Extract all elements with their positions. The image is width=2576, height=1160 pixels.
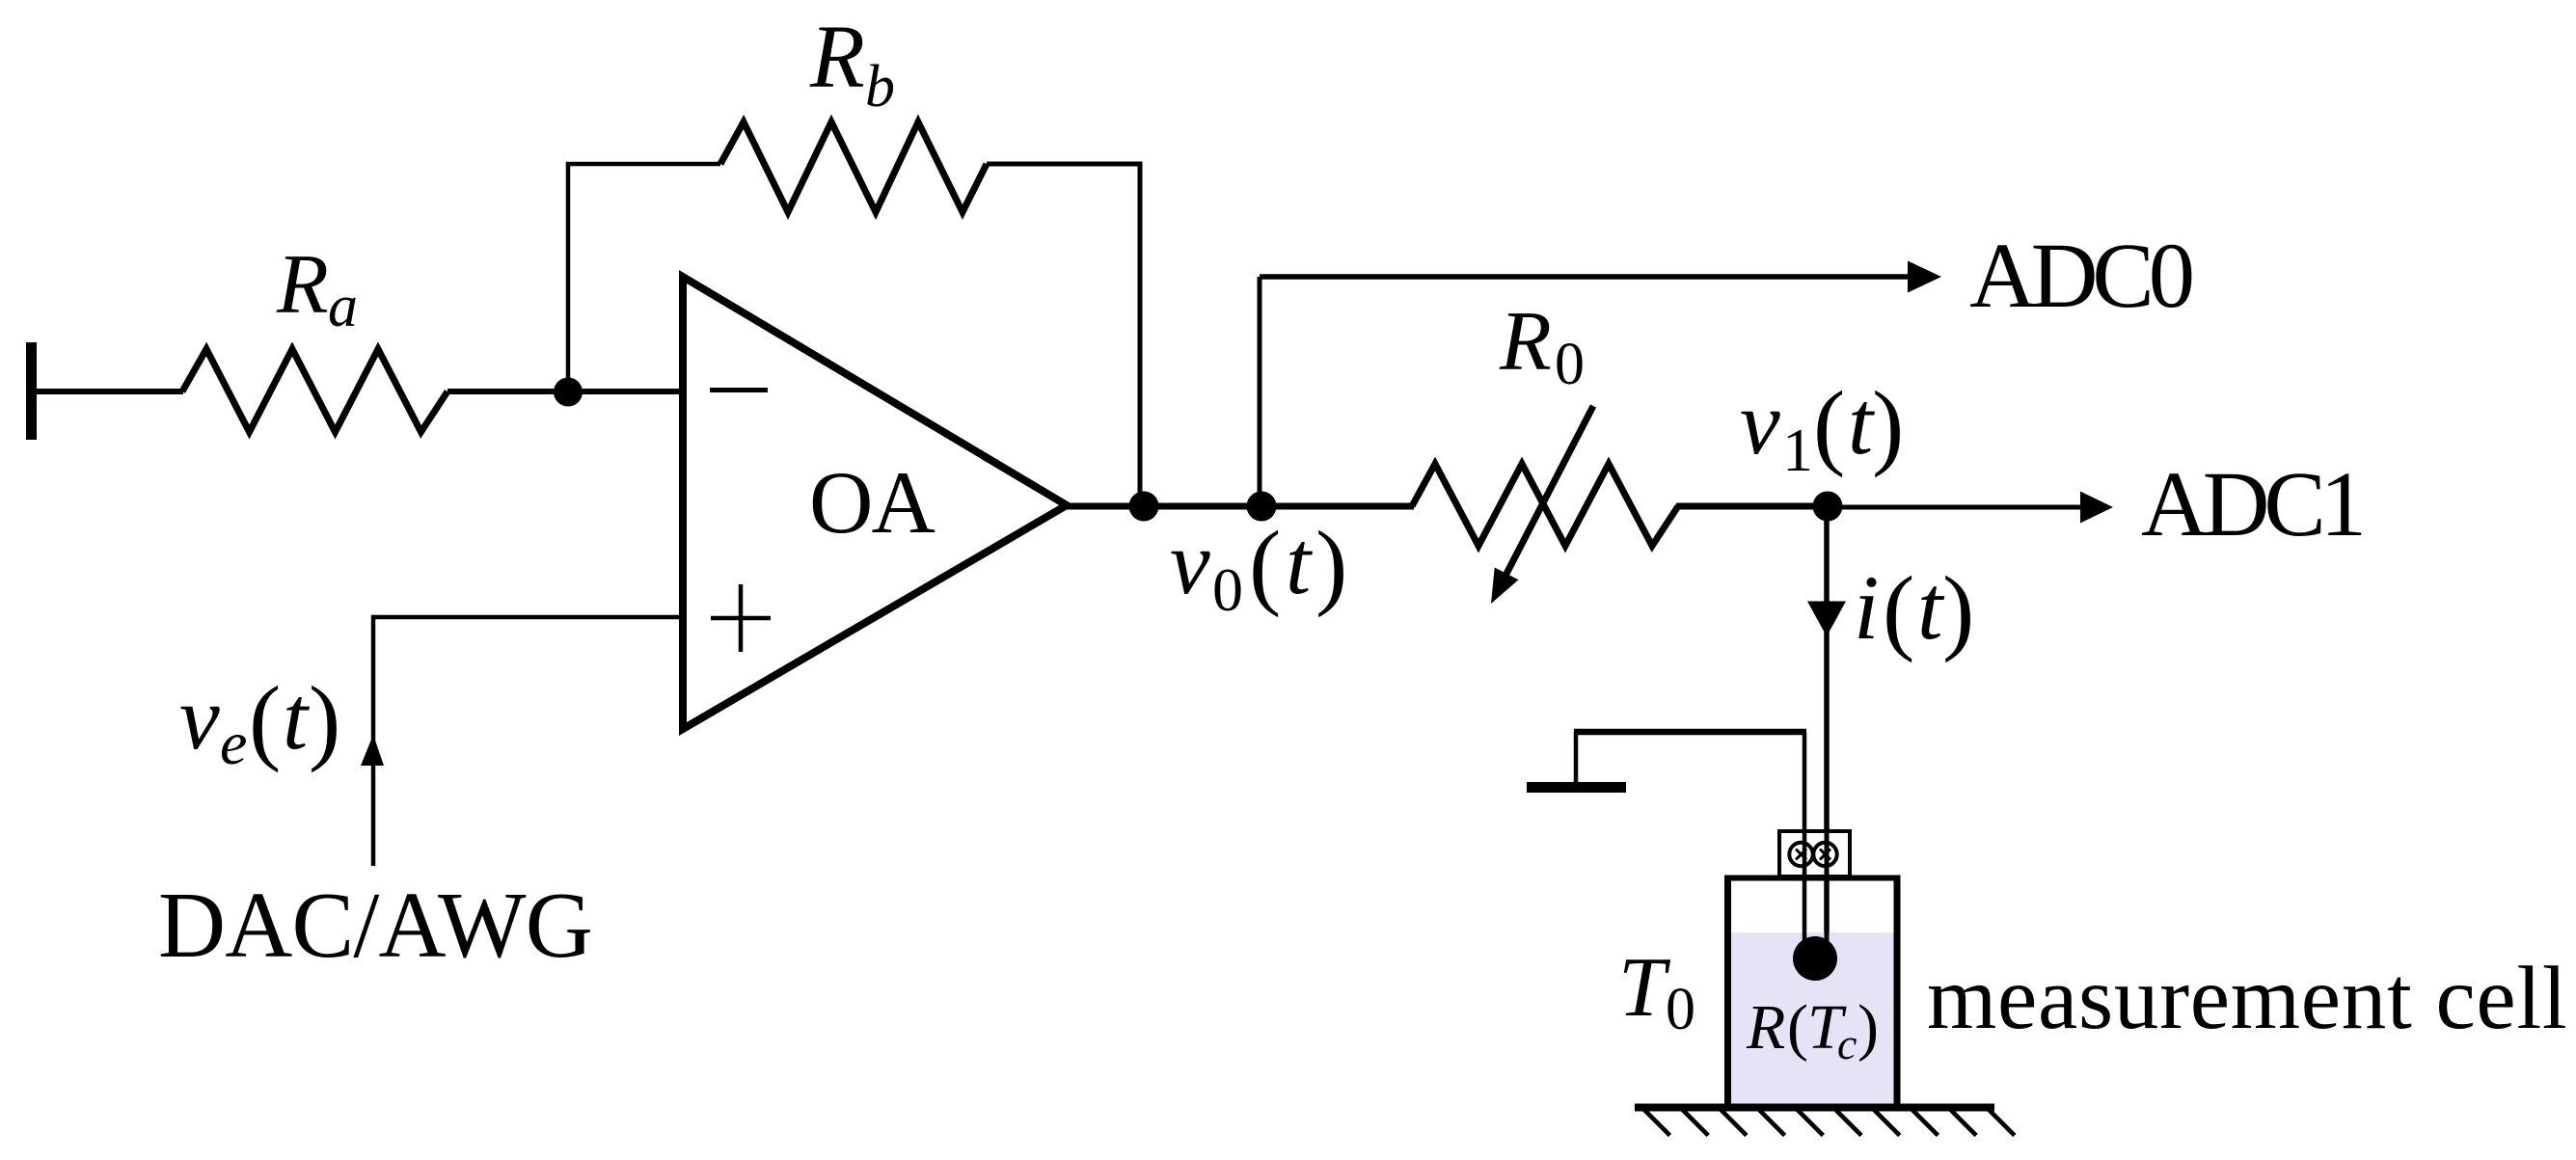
svg-text:T: T [1618,941,1671,1035]
svg-text:R: R [1499,295,1552,389]
svg-text:R: R [1746,992,1785,1063]
svg-text:(: ( [1249,511,1281,618]
svg-text:0: 0 [1212,555,1243,624]
svg-text:R: R [809,8,865,107]
svg-text:t: t [283,668,310,769]
svg-text:t: t [1917,556,1945,659]
svg-text:DAC/AWG: DAC/AWG [158,874,592,977]
svg-text:(: ( [1883,556,1914,663]
svg-text:a: a [328,274,358,339]
svg-text:0: 0 [1666,977,1695,1042]
svg-text:1: 1 [1782,416,1813,484]
svg-text:v: v [179,668,220,769]
svg-text:v: v [1170,513,1210,613]
svg-text:ADC1: ADC1 [2141,452,2362,555]
svg-text:R: R [276,238,329,332]
svg-text:ADC0: ADC0 [1969,224,2192,327]
svg-text:i: i [1854,556,1879,659]
svg-text:): ) [309,666,340,773]
svg-text:): ) [1872,371,1904,478]
svg-text:): ) [1857,992,1879,1063]
svg-text:b: b [865,54,895,120]
svg-text:(: ( [1787,992,1808,1063]
svg-text:): ) [1315,511,1347,618]
svg-text:OA: OA [809,453,935,552]
svg-text:0: 0 [1555,332,1585,397]
svg-text:t: t [1286,513,1313,613]
svg-text:measurement cell: measurement cell [1927,949,2567,1048]
svg-text:t: t [1848,373,1875,473]
svg-text:(: ( [249,666,281,773]
svg-text:(: ( [1813,371,1845,478]
svg-text:c: c [1837,1019,1857,1068]
svg-text:e: e [220,709,247,777]
svg-text:v: v [1740,373,1780,473]
svg-text:): ) [1942,556,1974,663]
